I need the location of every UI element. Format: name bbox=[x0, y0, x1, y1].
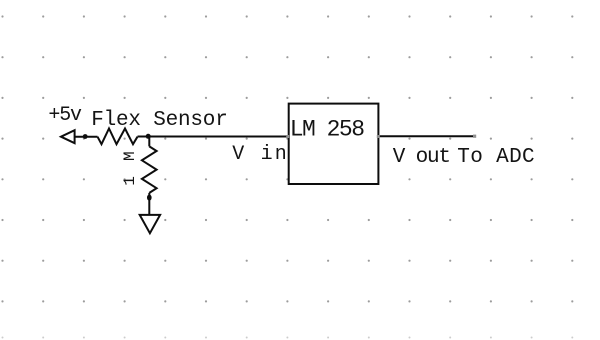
svg-text:To ADC: To ADC bbox=[457, 146, 535, 169]
svg-text:+5v: +5v bbox=[48, 104, 82, 127]
svg-text:V out: V out bbox=[393, 146, 450, 169]
svg-text:V in: V in bbox=[232, 143, 289, 166]
svg-text:Flex Sensor: Flex Sensor bbox=[91, 109, 227, 132]
svg-text:M: M bbox=[121, 151, 139, 161]
svg-text:1: 1 bbox=[121, 176, 139, 186]
svg-text:LM 258: LM 258 bbox=[290, 117, 365, 143]
